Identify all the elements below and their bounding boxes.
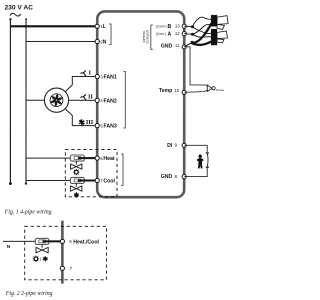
AC sine symbol [10, 13, 21, 16]
wire L to terminal 1 (thick) [10, 25, 97, 27]
node shield junction [191, 41, 194, 44]
svg-text:Cool: Cool [103, 178, 115, 184]
svg-text:wireless: wireless [142, 31, 146, 43]
fig2 wire valve to terminal 6 (thick) [42, 240, 62, 242]
svg-text:Heat: Heat [103, 156, 115, 162]
terminal 4 [95, 98, 99, 102]
terminal 9 [182, 143, 186, 147]
wire switch to GND8 [184, 168, 207, 177]
fan coil unit body U1 [97, 11, 184, 197]
cable jacket top [211, 15, 217, 27]
svg-text:GND: GND [161, 43, 173, 49]
sun icon (heat) [73, 169, 79, 175]
svg-text:III: III [86, 119, 94, 126]
terminal 13 [182, 24, 186, 28]
svg-text:(Com+): (Com+) [156, 25, 167, 29]
fig2 dashed box [25, 226, 107, 280]
wire N to heat valve [26, 157, 70, 159]
wire cool valve to terminal 7 (thick) [78, 179, 97, 181]
cable jacket bottom [211, 29, 217, 45]
terminal 2 [95, 39, 99, 43]
wire GND to shield junction [184, 43, 191, 47]
svg-text:GND: GND [161, 174, 173, 180]
svg-text:230 V AC: 230 V AC [5, 4, 34, 11]
svg-text:II: II [88, 93, 93, 100]
terminal 3 [95, 74, 99, 78]
wire Temp to probe [184, 90, 207, 92]
svg-text:Heat./Cool: Heat./Cool [73, 239, 99, 245]
svg-text:N: N [103, 39, 107, 45]
terminal 5 [95, 123, 99, 127]
wire L vertical [9, 19, 11, 183]
switch III blade [79, 119, 84, 125]
person icon (presence) [197, 155, 203, 169]
snowflake icon (cool) [74, 192, 79, 197]
wire fan to switch II [69, 99, 98, 101]
cable sheath bottom [217, 31, 227, 38]
dashed box valves fig1 [65, 149, 117, 196]
wire N to fan motor [26, 99, 44, 101]
node junction B [191, 25, 194, 28]
svg-text:13: 13 [175, 24, 180, 29]
svg-text:Fig. 2 2-pipe wiring: Fig. 2 2-pipe wiring [5, 291, 53, 297]
wire B to junction [184, 25, 192, 28]
node L bottom dot [9, 182, 12, 185]
fig2: wire N to valve [3, 240, 35, 242]
wire DI to occupancy switch [184, 145, 207, 152]
wire N to cool valve [26, 179, 70, 181]
svg-text:12: 12 [175, 31, 180, 36]
bracket L N [109, 24, 111, 45]
terminal 6 [95, 156, 99, 160]
wire GND11 down to probe [184, 47, 207, 87]
wire N to terminal 2 [26, 40, 97, 42]
fig2 valve actuator [35, 238, 49, 252]
terminal 10 [182, 90, 186, 94]
snowflake icon fig2 [43, 256, 48, 261]
bracket Heat Cool [121, 154, 123, 186]
wire heat valve to terminal 6 (thick) [78, 157, 97, 159]
switch arc [206, 154, 209, 167]
wire B pair to bottom cable [192, 27, 211, 34]
svg-text:10: 10 [174, 88, 179, 93]
wire A pair to top cable [192, 24, 211, 34]
svg-text:Probe: Probe [216, 88, 224, 92]
terminal 1 [95, 24, 99, 28]
fig2 terminal 6 [60, 239, 64, 243]
svg-text:(Com-): (Com-) [156, 32, 166, 36]
occupancy switch contacts [206, 152, 209, 153]
sun icon fig2 [33, 256, 39, 262]
terminal 12 [182, 32, 186, 36]
svg-text:Temp: Temp [159, 88, 172, 94]
fan motor M1 [44, 88, 68, 112]
fig2 terminal 7 [60, 266, 64, 270]
wire A pair to bottom cable [192, 34, 211, 37]
node L top tick [9, 18, 11, 20]
wire N vertical [25, 19, 27, 183]
wire shield to top cable (thick) [193, 23, 212, 44]
svg-text:A: A [168, 31, 172, 37]
svg-text:FAN2: FAN2 [104, 98, 117, 104]
terminal 8 [182, 175, 186, 179]
svg-text:N: N [7, 244, 11, 250]
com port bracket [151, 25, 153, 49]
node N top tick [25, 18, 27, 20]
node N bottom dot [25, 182, 27, 184]
terminal 7 [95, 178, 99, 182]
wire fan to switch III [65, 109, 97, 126]
temp probe [207, 85, 224, 92]
switch II blade [80, 94, 86, 100]
bracket FAN1-FAN3 [123, 72, 125, 129]
svg-text:B: B [168, 24, 172, 30]
node junction A [191, 33, 194, 36]
switch I blade [80, 70, 86, 76]
wire B pair to top cable [192, 17, 211, 27]
fig2 device edge [61, 221, 64, 284]
svg-text:FAN1: FAN1 [104, 74, 117, 80]
wire fan to switch I [65, 76, 97, 91]
cable sheath top [217, 16, 228, 25]
valve Y2 cool actuator [70, 177, 84, 191]
wire shield to bottom cable (thick) [191, 42, 211, 45]
valve Y1 heat actuator [70, 155, 84, 169]
svg-text:DI: DI [167, 143, 173, 149]
terminal 11 [182, 45, 186, 49]
svg-text:Fig. 1 4-pipe wiring: Fig. 1 4-pipe wiring [4, 208, 52, 215]
svg-text:FAN3: FAN3 [104, 123, 117, 129]
svg-text:11: 11 [175, 43, 180, 48]
wire A to junction [184, 33, 192, 36]
